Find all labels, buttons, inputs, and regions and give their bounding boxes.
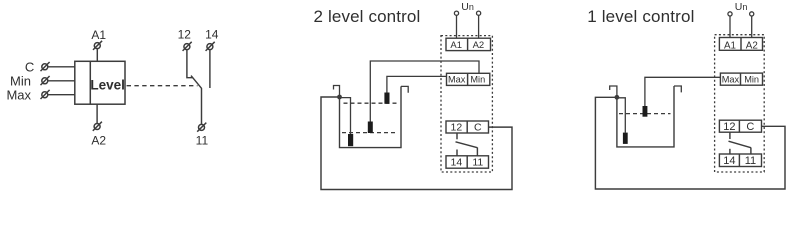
supply terminal left (right diagram) (728, 12, 732, 16)
contact drop to 11 (476, 148, 478, 156)
terminal A1 (93, 41, 102, 50)
svg-text:Un: Un (735, 1, 748, 13)
svg-text:A2: A2 (473, 40, 485, 51)
svg-text:C: C (746, 121, 754, 133)
electrode tip right (643, 106, 648, 117)
svg-text:Max: Max (6, 88, 31, 103)
svg-text:A1: A1 (450, 40, 462, 51)
svg-text:12: 12 (723, 121, 735, 133)
12/C divider (466, 121, 468, 133)
svg-text:A1: A1 (91, 28, 106, 42)
electrode Min tip (368, 122, 373, 134)
terminal 11 (197, 123, 206, 132)
device enclosure (dashed) (441, 36, 492, 172)
Max/Min divider right (740, 73, 742, 85)
wire C to box (48, 66, 75, 68)
electrode C tip right (623, 133, 628, 144)
svg-text:Min: Min (10, 74, 31, 89)
svg-text:C: C (25, 60, 34, 75)
wire Max to box (48, 94, 75, 96)
wire C loop right (595, 97, 785, 189)
svg-text:Min: Min (744, 75, 759, 85)
12 C contact box (446, 121, 489, 133)
svg-text:11: 11 (745, 155, 756, 167)
tank right rim curl right (674, 86, 681, 92)
wire A2 from box (96, 104, 98, 123)
wire A1 to Level box (96, 49, 98, 62)
supply terminal right (477, 11, 481, 15)
svg-text:14: 14 (205, 27, 219, 41)
Max/Min divider (467, 73, 469, 85)
device enclosure right (dashed) (715, 35, 765, 172)
svg-text:11: 11 (196, 133, 209, 147)
svg-text:Level: Level (90, 78, 125, 93)
svg-text:12: 12 (178, 27, 192, 41)
svg-text:12: 12 (451, 122, 463, 134)
wire from 14 (209, 50, 211, 88)
Max Min box (447, 73, 490, 85)
svg-text:11: 11 (472, 157, 483, 169)
tank walls right (617, 86, 674, 147)
12 C box right (719, 120, 761, 132)
wire Max electrode to Max cell (387, 76, 447, 92)
wire from 12 with fixed contact foot (187, 50, 193, 78)
terminal C (41, 62, 50, 71)
svg-text:Max: Max (448, 75, 466, 85)
relay coil box (Level) (75, 61, 125, 104)
node tank connection (dot) (337, 95, 342, 100)
wire supply to A2 (478, 15, 480, 38)
tank left rim curl right (610, 86, 617, 97)
wire supply to A2 (right) (751, 16, 753, 37)
svg-text:14: 14 (451, 157, 463, 169)
14 11 contact box (446, 156, 489, 168)
14/11 divider right (738, 154, 740, 167)
switch arm to 11 (191, 76, 202, 125)
contact stub from 12 right (729, 132, 731, 139)
wire C loop (C terminal to tank) (321, 97, 512, 190)
Max Min box right (720, 73, 762, 85)
A1/A2 divider right (740, 38, 742, 51)
wire Min to box (48, 80, 75, 82)
14/11 divider (466, 156, 468, 168)
svg-text:14: 14 (723, 155, 735, 167)
A1 A2 terminal box (446, 38, 491, 50)
A1 A2 box right (719, 38, 762, 51)
A1/A2 divider (467, 38, 469, 50)
contact drop to 11 right (750, 148, 752, 155)
max water level (dashed) (344, 102, 400, 104)
supply terminal right (right diagram) (750, 12, 754, 16)
terminal A2 (93, 122, 102, 131)
electrode C wire (340, 98, 351, 135)
min water level (dashed) (342, 132, 396, 134)
terminal Max (41, 90, 50, 99)
electrode C tip (348, 134, 353, 146)
terminal 14 (206, 42, 215, 51)
12/C divider right (738, 120, 740, 132)
svg-text:C: C (474, 122, 482, 134)
electrode C wire right (617, 98, 625, 133)
wire Min electrode to Min cell (370, 61, 479, 122)
wire electrode to Max cell right (645, 77, 721, 106)
svg-text:A2: A2 (746, 40, 758, 51)
svg-text:Un: Un (461, 1, 474, 13)
tank right rim curl (401, 86, 408, 92)
electrode Max tip (384, 93, 389, 104)
svg-text:A2: A2 (91, 134, 106, 148)
tank walls (340, 86, 402, 147)
contact arm (456, 142, 478, 148)
mechanical link (dashed) (127, 85, 198, 87)
terminal 12 (183, 42, 192, 51)
svg-text:A1: A1 (724, 40, 736, 51)
coil box divider (89, 61, 91, 104)
tank left rim curl (334, 86, 340, 97)
wire supply to A1 (right) (729, 16, 731, 37)
svg-text:1 level control: 1 level control (587, 7, 694, 26)
14 11 box right (719, 154, 761, 167)
contact stub from 12 (456, 133, 458, 139)
contact stub to 14 right (729, 149, 731, 154)
node tank connection right (dot) (615, 95, 620, 100)
svg-text:Min: Min (470, 75, 485, 85)
contact arm right (729, 141, 751, 148)
wire supply to A1 (456, 15, 458, 38)
contact stub to 14 (456, 150, 458, 156)
supply terminal left (454, 11, 458, 15)
terminal Min (41, 76, 50, 85)
svg-text:Max: Max (722, 75, 740, 85)
water level right (dashed) (619, 113, 671, 115)
svg-text:2 level control: 2 level control (314, 7, 421, 26)
